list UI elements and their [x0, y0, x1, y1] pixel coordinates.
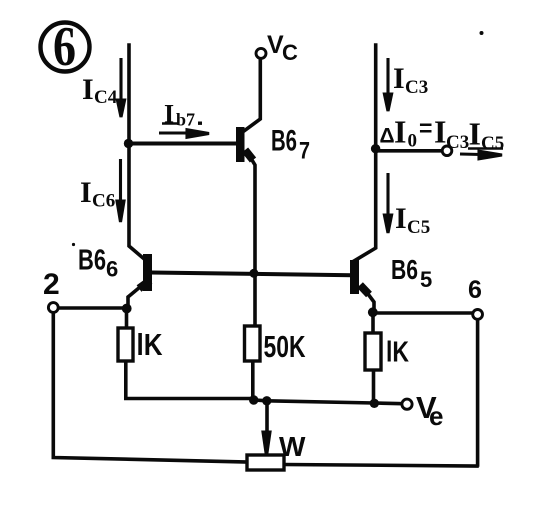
- svg-text:I: I: [80, 176, 92, 209]
- svg-text:7: 7: [299, 137, 310, 164]
- svg-text:lK: lK: [137, 327, 164, 362]
- svg-text:I: I: [82, 73, 94, 106]
- svg-text:W: W: [279, 431, 306, 462]
- svg-text:C3: C3: [446, 132, 469, 153]
- svg-text:B6: B6: [391, 254, 418, 285]
- svg-text:I: I: [164, 100, 174, 129]
- svg-text:I: I: [395, 202, 407, 235]
- svg-text:C4: C4: [94, 87, 118, 108]
- svg-text:B6: B6: [78, 245, 106, 277]
- svg-text:C5: C5: [407, 217, 430, 238]
- svg-text:5: 5: [420, 267, 432, 292]
- svg-text:I: I: [469, 116, 481, 152]
- svg-text:6: 6: [468, 276, 482, 304]
- svg-text:6: 6: [53, 16, 76, 78]
- svg-text:I: I: [434, 114, 446, 150]
- svg-text:0: 0: [408, 131, 418, 152]
- svg-text:=: =: [419, 115, 432, 141]
- svg-text:e: e: [429, 401, 443, 431]
- svg-text:2: 2: [43, 268, 60, 301]
- svg-text:I: I: [394, 114, 406, 150]
- svg-text:lK: lK: [386, 337, 409, 369]
- svg-text:C: C: [282, 40, 298, 65]
- svg-text:I: I: [393, 62, 405, 95]
- svg-text:b7: b7: [176, 110, 195, 130]
- svg-text:C3: C3: [405, 77, 428, 98]
- svg-text:C5: C5: [481, 133, 504, 154]
- svg-text:6: 6: [106, 257, 118, 282]
- svg-text:Δ: Δ: [380, 125, 395, 148]
- svg-text:50K: 50K: [264, 329, 306, 364]
- svg-text:B6: B6: [271, 125, 297, 158]
- svg-text:C6: C6: [92, 191, 115, 212]
